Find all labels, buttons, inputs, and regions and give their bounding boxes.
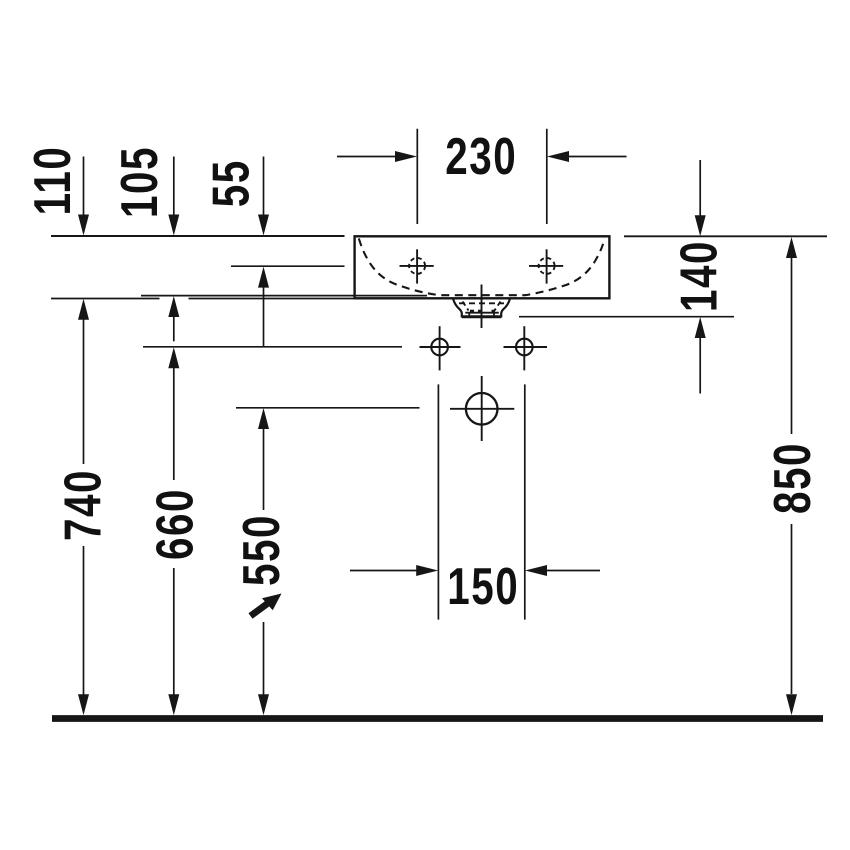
svg-text:550: 550 xyxy=(232,514,290,586)
dim 140 arrow shaft up tail xyxy=(699,338,701,394)
dim 740 arrow shaft upper xyxy=(83,319,85,464)
svg-text:110: 110 xyxy=(23,146,81,216)
trap dark dash b xyxy=(478,310,482,313)
drain crosshair vertical xyxy=(481,376,483,441)
arrowhead 550 down floor xyxy=(258,694,269,715)
mounting hole left circle xyxy=(431,339,448,356)
mounting hole left crosshair horizontal xyxy=(420,346,461,348)
wire top reference line left segment xyxy=(51,235,345,237)
dim 550 arrow shaft lower xyxy=(263,622,265,696)
dim 140 arrow shaft down xyxy=(699,160,701,216)
dim 110 arrow shaft down xyxy=(83,157,85,216)
svg-text:230: 230 xyxy=(445,127,517,185)
basin outline rectangle xyxy=(355,236,610,298)
trap inner vertical right xyxy=(493,313,495,317)
arrowhead 105 up xyxy=(168,296,179,317)
node 105 reference line xyxy=(141,295,427,297)
dim 550 arrow shaft upper xyxy=(263,429,265,511)
trap bottom flange thick edge xyxy=(462,316,501,319)
dim 850 arrow shaft upper xyxy=(791,258,793,435)
dim 740 arrow shaft lower xyxy=(83,546,85,696)
dim 230 line left xyxy=(337,156,396,158)
arrowhead 660 down floor xyxy=(168,694,179,715)
arrowhead 140 up xyxy=(695,317,706,338)
svg-text:660: 660 xyxy=(146,488,204,560)
trap outer profile xyxy=(453,299,510,316)
faucet hole right crosshair horizontal xyxy=(529,265,563,267)
dim 55 arrow shaft up tail xyxy=(263,287,265,347)
faucet hole right crosshair vertical xyxy=(546,249,548,283)
dim 55 arrow shaft down xyxy=(263,157,265,216)
arrowhead 105 down xyxy=(168,215,179,236)
mounting hole left crosshair vertical xyxy=(439,326,441,370)
leader arrow northeast near 550 xyxy=(262,594,282,611)
dim 230 extension line right xyxy=(546,129,548,224)
trap dark dash c xyxy=(492,310,496,313)
arrowhead 740 down floor xyxy=(78,694,89,715)
arrowhead 550 up xyxy=(258,408,269,429)
arrowhead 140 down xyxy=(695,215,706,236)
arrowhead 230 right xyxy=(395,151,417,162)
svg-text:140: 140 xyxy=(670,240,728,312)
dim 230 line right xyxy=(568,156,627,158)
trap dashed diagonal left xyxy=(463,302,469,311)
faucet hole left crosshair horizontal xyxy=(400,265,434,267)
dim 660 arrow shaft lower xyxy=(173,568,175,696)
dim 150 line left xyxy=(350,570,417,572)
svg-text:150: 150 xyxy=(447,557,519,615)
faucet hole left dashed circle xyxy=(409,258,425,274)
svg-text:105: 105 xyxy=(110,146,168,218)
faucet hole right dashed circle xyxy=(539,258,555,274)
wire top reference line right segment xyxy=(624,235,827,237)
node 55 reference line xyxy=(231,265,345,267)
node 660 reference line xyxy=(143,346,402,348)
arrowhead 55 down xyxy=(258,215,269,236)
trap dashed diagonal right xyxy=(495,302,501,311)
node 550 drain reference line xyxy=(236,407,420,409)
trap dark dash a xyxy=(470,310,474,313)
dim 105 arrow shaft up tail xyxy=(173,316,175,341)
svg-text:740: 740 xyxy=(53,469,111,541)
svg-text:55: 55 xyxy=(202,159,260,207)
leader arrow shaft xyxy=(251,604,268,617)
node 110 reference line seg1 xyxy=(51,298,160,300)
dim 105 arrow shaft down xyxy=(173,157,175,216)
arrowhead 230 left xyxy=(547,151,569,162)
arrowhead 850 up xyxy=(786,237,797,258)
mounting hole right circle xyxy=(516,339,533,356)
drain crosshair horizontal xyxy=(450,408,514,410)
faucet hole left crosshair vertical xyxy=(416,249,418,283)
mounting hole right crosshair horizontal xyxy=(504,346,548,348)
arrowhead 660 up xyxy=(168,347,179,368)
arrowhead 850 down floor xyxy=(786,694,797,715)
trap inner horizontal line xyxy=(465,312,499,314)
arrowhead 110 up (740 top) xyxy=(78,299,89,320)
mounting hole right crosshair vertical xyxy=(523,326,525,370)
dim 150 line right xyxy=(546,570,600,572)
arrowhead 110 down xyxy=(78,215,89,236)
floor line xyxy=(52,715,823,722)
dim 150 extension line left xyxy=(437,384,439,619)
svg-text:850: 850 xyxy=(763,442,821,514)
dim 150 extension line right xyxy=(524,384,526,619)
node 140 reference line xyxy=(519,316,734,318)
drain hole circle xyxy=(466,393,498,425)
trap centerline xyxy=(481,285,483,329)
dim 230 extension line left xyxy=(416,129,418,224)
trap dashed interior line xyxy=(459,302,504,304)
dim 850 arrow shaft lower xyxy=(791,524,793,694)
arrowhead 150 right xyxy=(416,565,438,576)
dim 660 arrow shaft upper xyxy=(173,367,175,480)
arrowhead 150 left xyxy=(525,565,547,576)
trap inner vertical left xyxy=(468,313,470,317)
basin interior dashed curve xyxy=(359,239,605,296)
node 110 reference line seg2 xyxy=(189,298,355,300)
arrowhead 55 up xyxy=(258,267,269,288)
